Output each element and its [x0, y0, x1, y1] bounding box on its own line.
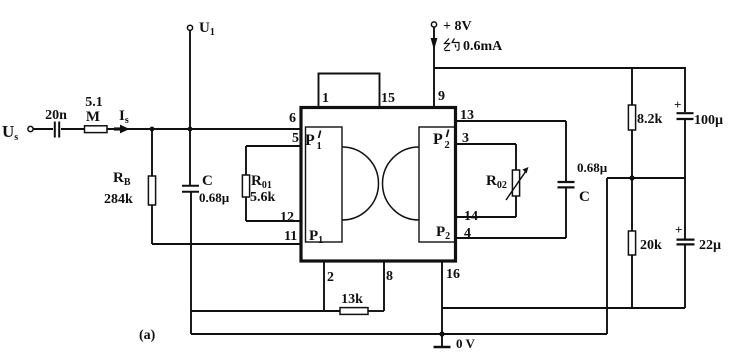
svg-text:8: 8	[386, 269, 393, 284]
svg-text:15: 15	[381, 91, 395, 106]
svg-text:Is: Is	[119, 108, 129, 126]
wire RB bottom row to IC pin 11	[152, 243, 301, 245]
resistor 5.1M	[85, 95, 108, 133]
svg-text:P2: P2	[436, 224, 450, 242]
svg-text:12: 12	[280, 210, 294, 225]
svg-text:11: 11	[284, 229, 297, 244]
svg-text:0.6mA: 0.6mA	[463, 39, 503, 54]
arc right resonator	[383, 147, 420, 220]
arc left resonator	[342, 147, 378, 220]
svg-text:9: 9	[438, 89, 445, 104]
wire IC pin 8 leg	[384, 262, 393, 311]
capacitor 22u	[675, 178, 721, 308]
wire junction row	[607, 177, 685, 179]
wire IC pin 2 leg	[324, 262, 334, 311]
IC inner block P2	[419, 127, 456, 242]
node junction dot 8.2k/20k	[629, 175, 634, 180]
svg-text:14: 14	[464, 209, 478, 224]
svg-text:0.68µ: 0.68µ	[199, 190, 230, 205]
resistor 20k	[628, 178, 662, 308]
svg-text:R02: R02	[486, 173, 507, 191]
svg-text:13: 13	[460, 108, 474, 123]
svg-text:284k: 284k	[104, 192, 133, 207]
jumper bracket pins 1-15	[319, 74, 396, 107]
svg-text:C: C	[579, 189, 590, 205]
svg-text:0 V: 0 V	[456, 336, 476, 351]
wire right-mid vertical to 0V	[606, 178, 608, 334]
svg-text:5.6k: 5.6k	[250, 190, 276, 205]
svg-text:U1: U1	[199, 20, 215, 38]
capacitor C 0.68u (left)	[182, 129, 230, 205]
wire 0V row	[191, 333, 607, 335]
wire IC pin 5 to R01	[246, 146, 301, 175]
node B junction dot	[188, 127, 193, 132]
svg-text:8.2k: 8.2k	[637, 112, 663, 127]
wire R02 bottom to IC pin 14	[456, 196, 517, 224]
svg-text:C: C	[202, 173, 213, 189]
svg-text:4: 4	[464, 226, 471, 241]
terminal U1	[187, 20, 214, 129]
wire Us to C1	[33, 128, 53, 130]
wire top rail	[434, 68, 685, 112]
wire node A to node B	[152, 128, 190, 130]
svg-text:2: 2	[327, 270, 334, 285]
svg-text:0.68µ: 0.68µ	[577, 160, 608, 175]
svg-text:R01: R01	[251, 173, 272, 191]
label P'2	[433, 131, 443, 148]
svg-text:P: P	[305, 132, 315, 149]
svg-text:22µ: 22µ	[699, 238, 721, 253]
wire C1 to R 5.1M	[61, 128, 84, 130]
svg-text:16: 16	[446, 267, 460, 282]
svg-text:M: M	[86, 109, 100, 125]
wire C bottom down to 0V row	[190, 192, 192, 334]
current arrow Is	[114, 108, 130, 133]
svg-text:6: 6	[289, 111, 296, 126]
svg-text:P: P	[433, 131, 443, 148]
wire IC pin 3 to R02	[456, 131, 517, 170]
svg-text:+: +	[675, 222, 682, 237]
svg-text:(a): (a)	[139, 328, 156, 343]
svg-text:1: 1	[317, 141, 322, 152]
svg-text:3: 3	[462, 131, 469, 146]
current arrow 0.6mA	[431, 38, 438, 50]
svg-text:100µ: 100µ	[694, 113, 723, 128]
wire 13k to pin 8 leg	[368, 310, 384, 312]
svg-text:1: 1	[322, 91, 329, 106]
wire IC pin 16 leg	[442, 262, 460, 334]
capacitor C 0.68u (right)	[558, 160, 608, 205]
label P'1	[305, 132, 315, 149]
node ground junction dot	[439, 331, 444, 336]
wire +8V down to IC pin 9	[433, 27, 435, 107]
wire IC pin 13 to cap C right	[456, 108, 567, 181]
svg-text:Us: Us	[2, 122, 18, 143]
wire node B to IC pin 6	[190, 128, 301, 130]
resistor RB 284k	[104, 129, 156, 244]
wire R01 bottom to IC pin 12	[246, 197, 301, 225]
resistor R02 variable	[486, 167, 529, 200]
svg-text:RB: RB	[113, 170, 131, 188]
wire IC pin 4 row	[456, 226, 567, 241]
capacitor 100u	[674, 97, 723, 178]
svg-text:+ 8V: + 8V	[443, 19, 472, 34]
terminal +8V	[431, 19, 471, 34]
svg-text:20n: 20n	[45, 108, 67, 123]
IC U1 body	[301, 108, 456, 262]
wire 13k row	[191, 310, 340, 312]
wire R to node A with current arrow Is	[107, 128, 152, 130]
svg-text:13k: 13k	[341, 292, 363, 307]
ground symbol 0V	[434, 334, 476, 351]
node A junction dot	[150, 127, 155, 132]
svg-text:+: +	[674, 97, 681, 112]
wire row pin16 to right rail	[442, 307, 685, 309]
wire cap C right bottom to pin 4 row	[565, 187, 567, 238]
svg-text:20k: 20k	[640, 238, 662, 253]
resistor R01 5.6k	[242, 173, 275, 205]
label approx 0.6mA (CJK yue)	[444, 39, 459, 51]
capacitor 20n	[45, 108, 67, 138]
resistor 8.2k	[628, 68, 662, 178]
svg-text:P1: P1	[309, 228, 323, 246]
node Us input terminal	[28, 126, 33, 131]
IC inner block P1	[306, 127, 343, 242]
resistor 13k	[340, 292, 368, 314]
svg-text:2: 2	[445, 140, 450, 151]
svg-text:5.1: 5.1	[85, 95, 103, 110]
svg-text:5: 5	[292, 131, 299, 146]
